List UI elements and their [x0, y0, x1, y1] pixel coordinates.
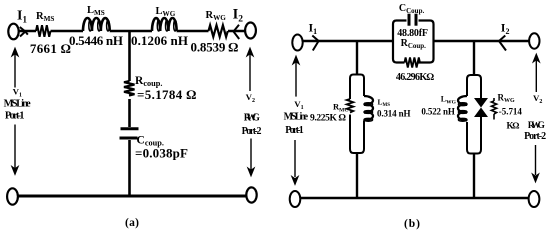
svg-text:0.522 nH: 0.522 nH — [421, 107, 455, 117]
svg-text:0.8539 Ω: 0.8539 Ω — [191, 40, 239, 55]
svg-text:K Ω: K Ω — [507, 121, 520, 131]
svg-text:MS Line: MS Line — [284, 111, 309, 122]
svg-text:(b): (b) — [404, 218, 420, 230]
svg-text:RWG: RWG — [244, 113, 260, 124]
svg-text:(a): (a) — [125, 217, 139, 229]
svg-text:Port-2: Port-2 — [242, 126, 262, 137]
svg-text:MS Line: MS Line — [4, 99, 31, 110]
svg-text:=0.038pF: =0.038pF — [135, 146, 188, 161]
svg-text:46.296KΩ: 46.296KΩ — [396, 72, 435, 83]
svg-text:Port-1: Port-1 — [285, 125, 304, 136]
svg-text:7661 Ω: 7661 Ω — [30, 41, 71, 56]
svg-text:-5.714: -5.714 — [499, 107, 523, 117]
svg-text:0.5446 nH: 0.5446 nH — [69, 33, 123, 48]
svg-text:0.314 nH: 0.314 nH — [377, 109, 411, 119]
svg-text:0.1206 nH: 0.1206 nH — [131, 33, 188, 48]
svg-text:Port-2: Port-2 — [524, 131, 546, 142]
svg-text:Port-1: Port-1 — [5, 111, 25, 122]
svg-text:9.225K Ω: 9.225K Ω — [310, 113, 347, 123]
svg-text:RWG: RWG — [528, 121, 546, 131]
svg-text:=5.1784 Ω: =5.1784 Ω — [137, 87, 196, 102]
